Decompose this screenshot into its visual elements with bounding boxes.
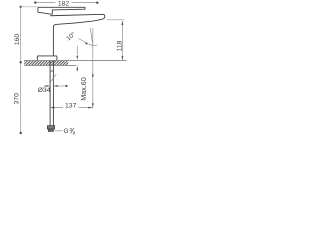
dimension 137 line bbox=[50, 107, 92, 109]
10 degree leader arrow bbox=[79, 39, 88, 44]
counter thickness arrow up bbox=[76, 66, 78, 70]
left vertical dimension line (160/370) bbox=[20, 7, 22, 133]
dimension 182 end dots bbox=[34, 1, 36, 3]
left dimension dots bbox=[20, 6, 22, 8]
Max.60 arrow up bbox=[92, 72, 94, 76]
svg-text:370: 370 bbox=[14, 93, 21, 105]
svg-text:118: 118 bbox=[116, 40, 123, 51]
dimension 137 arrows bbox=[50, 107, 54, 109]
svg-text:182: 182 bbox=[58, 1, 70, 8]
supply pipe bbox=[50, 60, 53, 125]
dimension 118 arrows bbox=[122, 21, 124, 25]
counter thickness arrow down bbox=[76, 46, 78, 55]
spout and body outline bbox=[50, 14, 105, 56]
svg-text:Ø34: Ø34 bbox=[38, 87, 51, 94]
svg-text:160: 160 bbox=[14, 34, 21, 46]
10 degree slanted line bbox=[90, 28, 92, 44]
fitting nut bbox=[48, 129, 53, 131]
dimension 118 extension top bbox=[107, 19, 125, 21]
dimension 182 line bbox=[35, 2, 98, 4]
svg-text:Max.60: Max.60 bbox=[79, 77, 88, 101]
pipe joint tick bbox=[50, 70, 53, 72]
base flange bbox=[37, 56, 57, 60]
svg-text:137: 137 bbox=[65, 103, 77, 110]
centerline bbox=[92, 28, 94, 108]
svg-text:8: 8 bbox=[73, 130, 76, 136]
dimension diameter 34 line left bbox=[44, 85, 50, 87]
lever handle bbox=[38, 7, 85, 14]
dimension 118 line bbox=[121, 21, 123, 60]
extension line top bbox=[21, 6, 38, 8]
dimension diameter 34 leader diagonal bbox=[50, 74, 56, 82]
pipe fitting bbox=[47, 126, 54, 129]
countertop bottom line bbox=[24, 64, 76, 66]
G 3/8 leader bbox=[55, 130, 63, 132]
dimension diameter 34 line right bbox=[54, 85, 67, 87]
svg-text:G: G bbox=[64, 128, 69, 135]
Max.60 arrow down bbox=[92, 103, 94, 107]
10 degree arc bbox=[89, 44, 98, 46]
countertop top line bbox=[24, 60, 126, 62]
